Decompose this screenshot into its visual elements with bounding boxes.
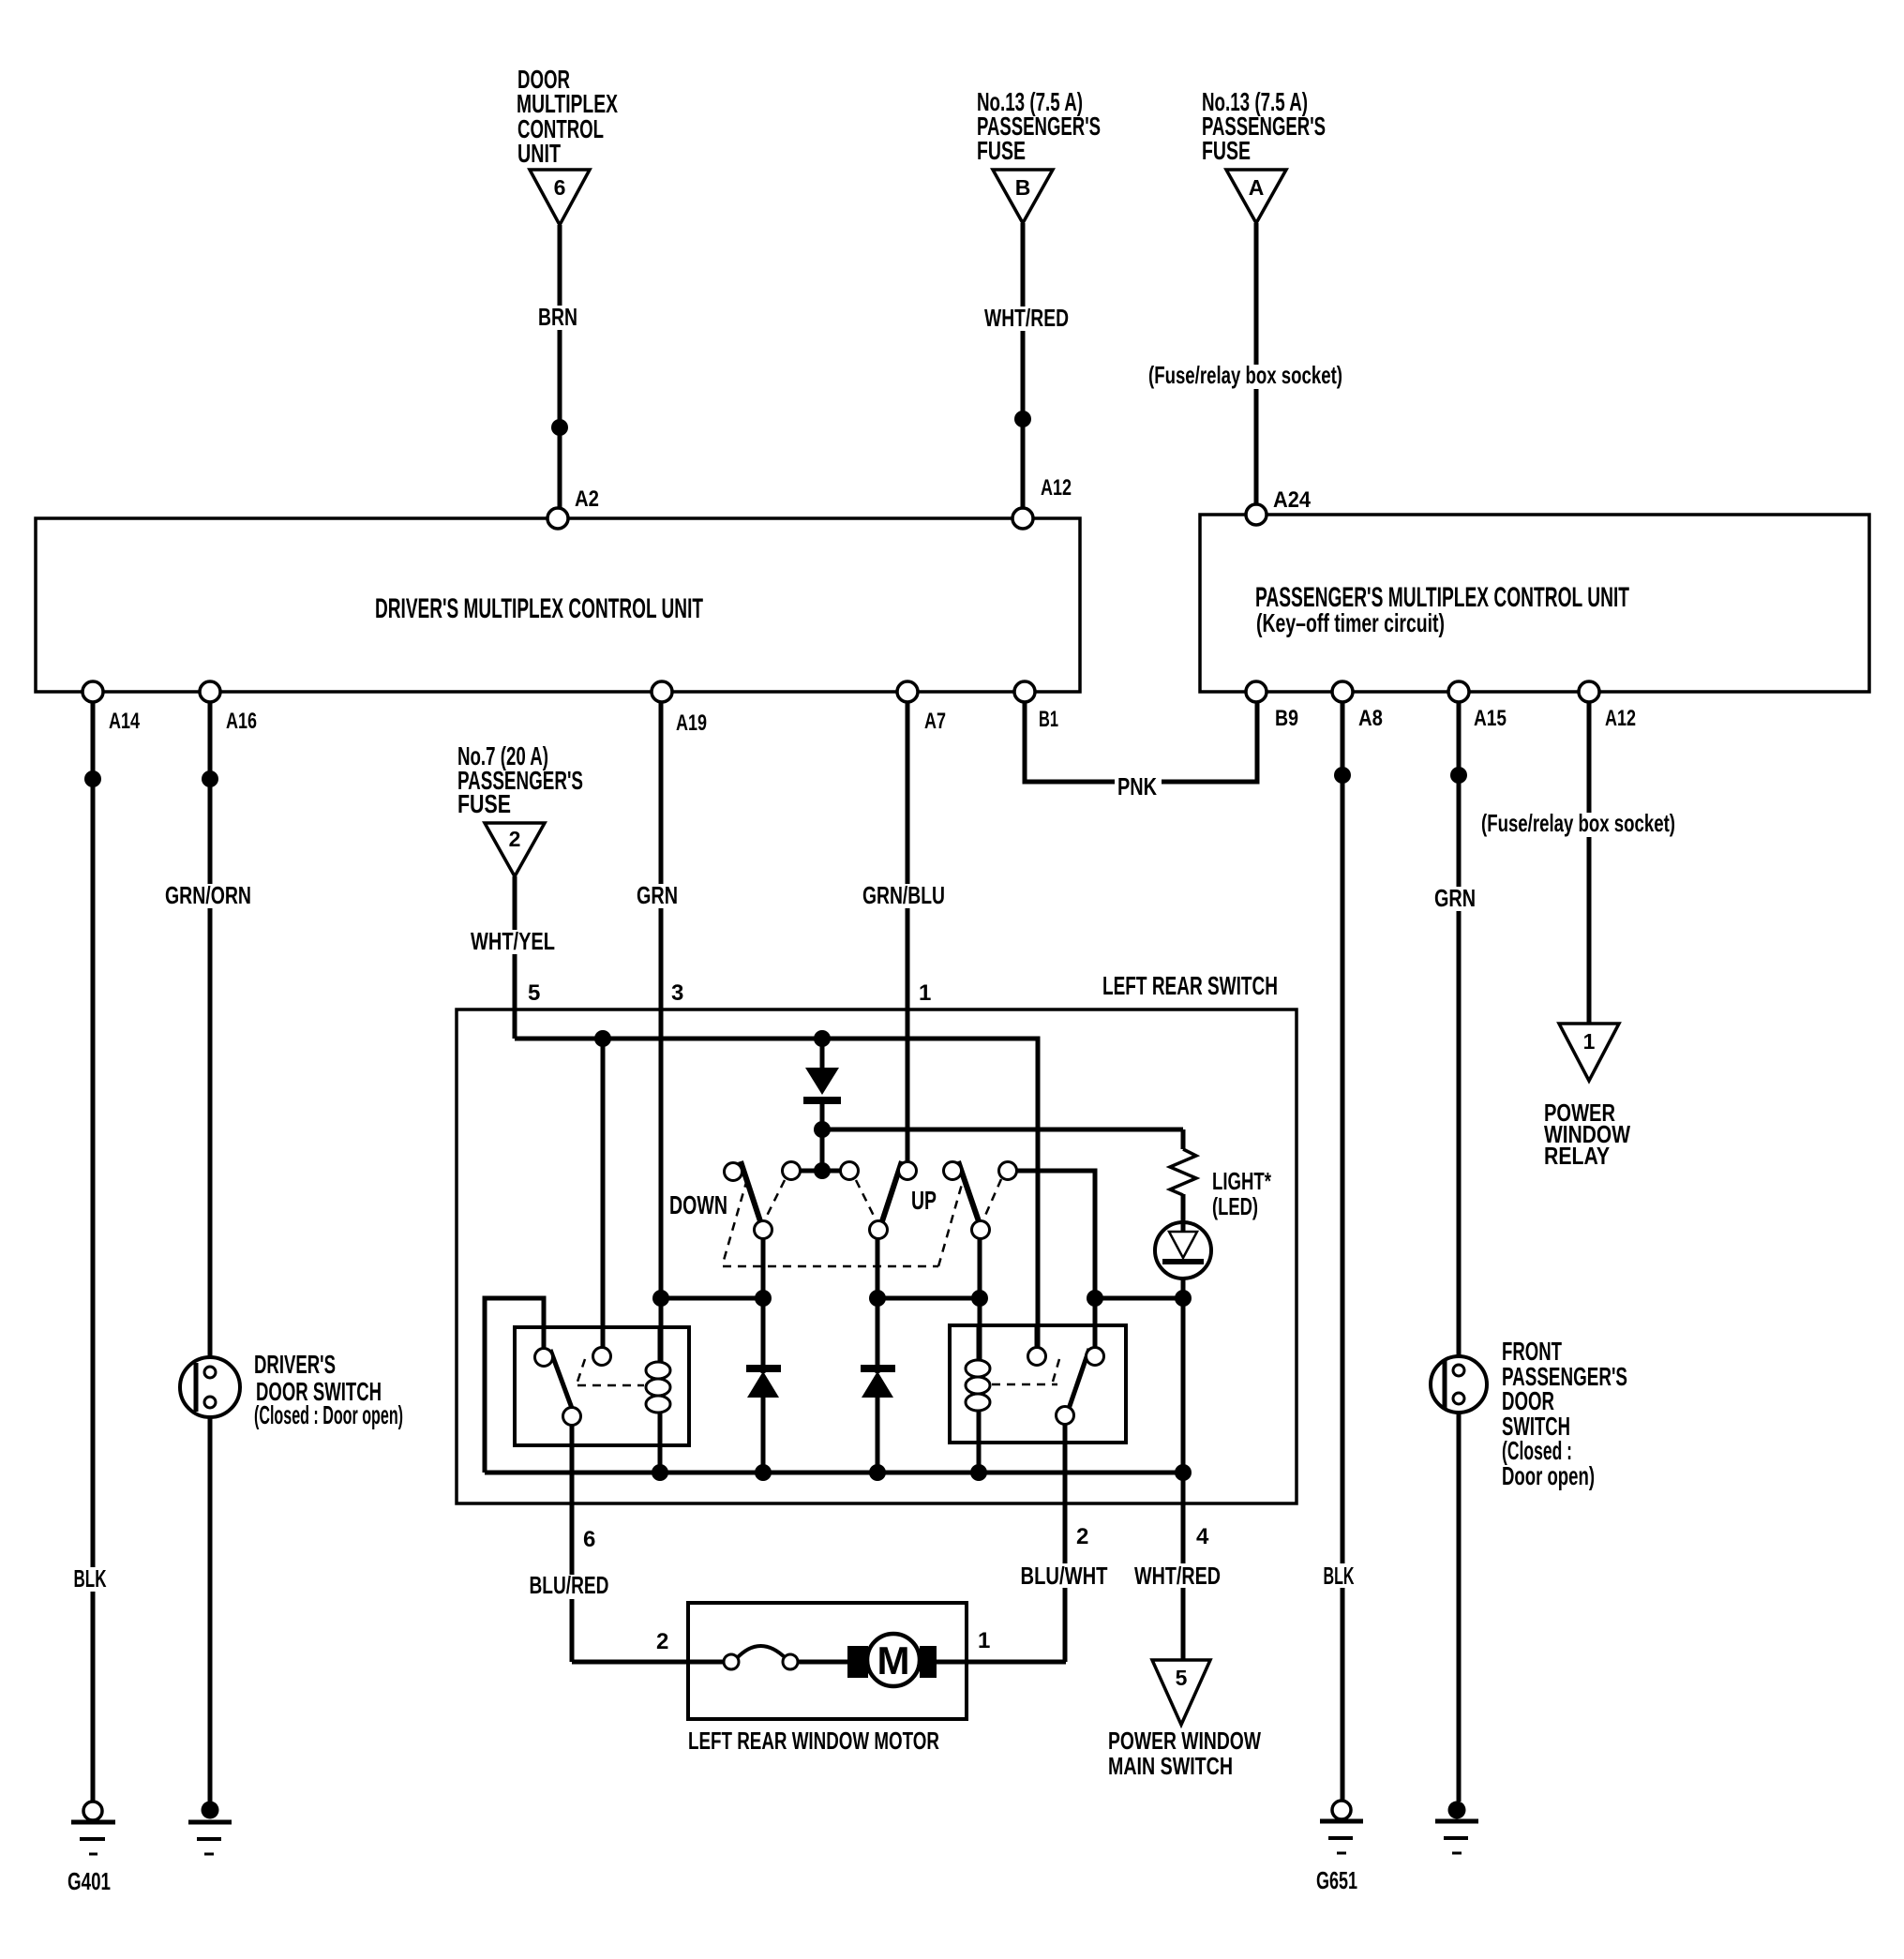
svg-text:A12: A12 — [1041, 475, 1072, 501]
svg-text:UP: UP — [911, 1186, 937, 1215]
svg-text:WHT/RED: WHT/RED — [984, 304, 1069, 332]
svg-text:1: 1 — [978, 1628, 990, 1653]
svg-text:5: 5 — [1176, 1666, 1188, 1690]
svg-text:3: 3 — [671, 980, 683, 1006]
svg-text:BLU/WHT: BLU/WHT — [1021, 1562, 1108, 1590]
svg-text:1: 1 — [919, 980, 931, 1006]
svg-text:(Fuse/relay box socket): (Fuse/relay box socket) — [1481, 809, 1675, 837]
svg-text:FUSE: FUSE — [1202, 136, 1251, 165]
svg-text:LIGHT*: LIGHT* — [1212, 1167, 1272, 1195]
svg-text:M: M — [877, 1638, 910, 1682]
svg-text:(Key–off timer circuit): (Key–off timer circuit) — [1256, 608, 1445, 637]
svg-text:B9: B9 — [1275, 706, 1298, 731]
svg-text:2: 2 — [1076, 1524, 1088, 1549]
svg-text:BLK: BLK — [74, 1564, 107, 1593]
svg-text:A14: A14 — [109, 709, 140, 734]
svg-text:MAIN SWITCH: MAIN SWITCH — [1108, 1752, 1233, 1780]
svg-text:G401: G401 — [67, 1867, 111, 1895]
svg-text:6: 6 — [554, 175, 566, 200]
svg-text:A12: A12 — [1605, 706, 1636, 731]
svg-text:A7: A7 — [924, 709, 946, 734]
svg-text:POWER WINDOW: POWER WINDOW — [1108, 1727, 1261, 1755]
svg-text:6: 6 — [583, 1527, 595, 1552]
svg-text:A15: A15 — [1474, 706, 1507, 731]
svg-text:B1: B1 — [1039, 707, 1058, 732]
svg-text:1: 1 — [1583, 1029, 1596, 1054]
svg-text:G651: G651 — [1316, 1866, 1357, 1894]
svg-text:A2: A2 — [575, 486, 599, 512]
svg-text:BLK: BLK — [1324, 1562, 1355, 1590]
svg-text:PNK: PNK — [1117, 772, 1157, 800]
svg-text:LEFT REAR SWITCH: LEFT REAR SWITCH — [1102, 971, 1278, 1000]
svg-text:GRN/BLU: GRN/BLU — [862, 881, 945, 909]
svg-text:BLU/RED: BLU/RED — [530, 1571, 609, 1599]
svg-text:B: B — [1015, 175, 1031, 200]
svg-text:(Fuse/relay box socket): (Fuse/relay box socket) — [1148, 361, 1342, 389]
svg-text:UNIT: UNIT — [517, 139, 561, 168]
svg-text:WHT/YEL: WHT/YEL — [471, 927, 555, 955]
svg-text:5: 5 — [528, 980, 540, 1006]
svg-text:GRN: GRN — [1434, 884, 1476, 912]
svg-text:4: 4 — [1196, 1524, 1209, 1549]
svg-text:A24: A24 — [1273, 487, 1312, 513]
svg-text:A: A — [1249, 175, 1265, 200]
svg-text:(LED): (LED) — [1212, 1192, 1258, 1220]
svg-text:DRIVER'S: DRIVER'S — [254, 1350, 336, 1379]
svg-text:2: 2 — [509, 827, 521, 851]
svg-text:GRN: GRN — [637, 881, 678, 909]
svg-text:DOWN: DOWN — [669, 1190, 727, 1219]
svg-text:A19: A19 — [676, 710, 707, 736]
svg-text:LEFT REAR WINDOW MOTOR: LEFT REAR WINDOW MOTOR — [688, 1727, 939, 1755]
svg-text:DRIVER'S MULTIPLEX CONTROL UNI: DRIVER'S MULTIPLEX CONTROL UNIT — [375, 593, 703, 624]
svg-text:2: 2 — [656, 1629, 668, 1654]
svg-text:WHT/RED: WHT/RED — [1134, 1562, 1221, 1590]
svg-text:A16: A16 — [226, 709, 257, 734]
svg-text:FUSE: FUSE — [977, 136, 1026, 165]
svg-text:RELAY: RELAY — [1544, 1142, 1610, 1170]
svg-text:FUSE: FUSE — [457, 789, 511, 818]
svg-text:Door open): Door open) — [1502, 1461, 1595, 1490]
svg-text:(Closed : Door open): (Closed : Door open) — [254, 1400, 403, 1429]
svg-text:GRN/ORN: GRN/ORN — [165, 881, 251, 909]
svg-text:A8: A8 — [1358, 706, 1383, 731]
svg-text:BRN: BRN — [538, 303, 577, 331]
